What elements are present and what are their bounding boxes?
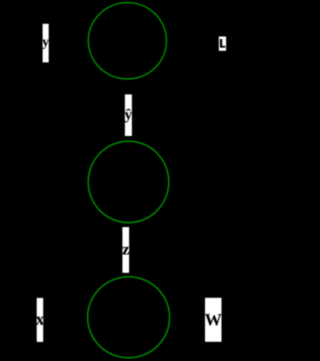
label text W — [205, 314, 221, 325]
label text y-hat — [125, 109, 132, 123]
label text y — [42, 40, 49, 49]
node circle: middle (activation) node — [88, 141, 169, 222]
label box z — [122, 227, 129, 273]
label box x — [37, 298, 44, 342]
node circle: bottom (matmul) node — [88, 277, 170, 358]
label text x — [36, 317, 45, 325]
node circle: top (loss) node — [88, 3, 166, 79]
label box W — [205, 298, 222, 342]
label box L — [219, 37, 226, 51]
label text z — [122, 247, 129, 255]
label box y — [43, 24, 49, 63]
label box y-hat — [125, 94, 132, 136]
label text L — [220, 39, 226, 48]
